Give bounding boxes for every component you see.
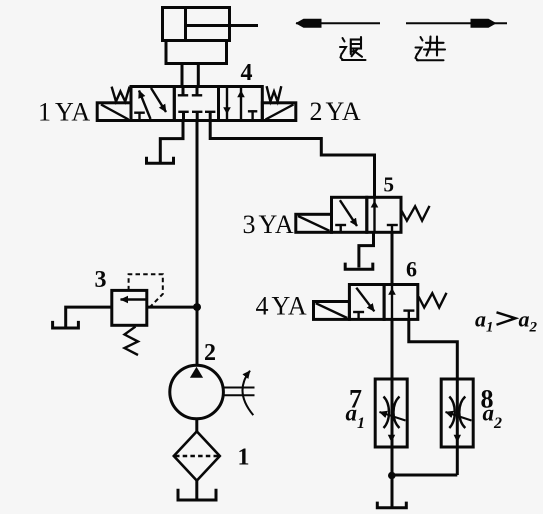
svg-text:4YA: 4YA [256, 292, 308, 321]
svg-text:4: 4 [241, 60, 253, 86]
svg-text:a2: a2 [519, 307, 538, 336]
svg-text:a1: a1 [346, 401, 366, 433]
svg-text:1: 1 [238, 445, 250, 471]
svg-text:a2: a2 [483, 401, 503, 433]
svg-text:6: 6 [406, 257, 417, 282]
svg-text:a1: a1 [475, 307, 494, 336]
svg-text:2YA: 2YA [310, 97, 362, 126]
svg-text:1YA: 1YA [38, 98, 91, 127]
svg-text:3: 3 [95, 267, 107, 293]
svg-text:5: 5 [384, 173, 395, 197]
svg-text:3YA: 3YA [243, 210, 295, 239]
svg-text:2: 2 [204, 340, 216, 366]
